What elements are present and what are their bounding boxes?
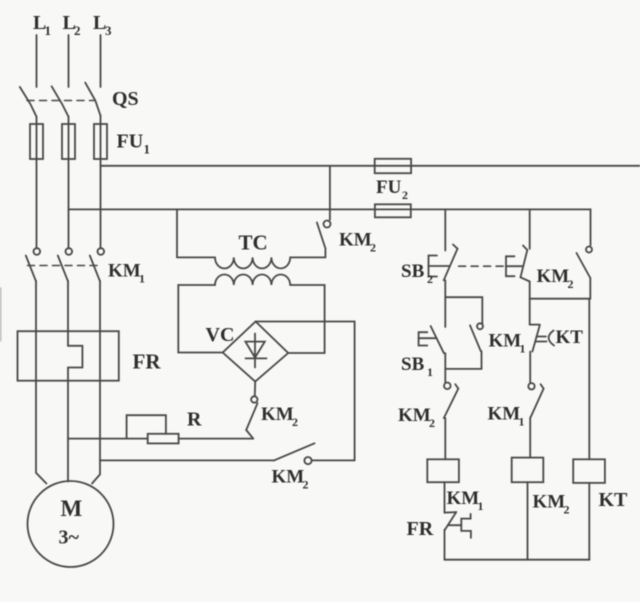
fuse FU2 label bbox=[376, 177, 408, 202]
wire pole1 through FR bbox=[35, 331, 37, 381]
wire rectifier dc+ riser bbox=[256, 322, 355, 461]
fuse FU1 pole3 body bbox=[94, 124, 107, 159]
svg-text:3~: 3~ bbox=[59, 527, 80, 549]
wire KT rung bbox=[588, 299, 590, 460]
pushbutton SB2 NC contact bbox=[444, 249, 458, 281]
switch QS pole 3 blade bbox=[85, 83, 100, 116]
svg-text:SB: SB bbox=[401, 261, 425, 282]
wire TC secondary right to rectifier bbox=[288, 285, 324, 353]
wire pole2 FU1 to KM1 bbox=[68, 159, 70, 248]
thermal relay FR box bbox=[18, 331, 119, 381]
contactor KM2 self-hold label bbox=[537, 266, 574, 291]
wire QS to FU1 pole3 bbox=[100, 116, 102, 124]
svg-text:1: 1 bbox=[144, 142, 151, 157]
thermal relay FR heater jog (middle phase) bbox=[68, 346, 82, 381]
node L1 label bbox=[33, 12, 51, 38]
svg-text:1: 1 bbox=[519, 415, 525, 429]
resistor R body bbox=[148, 434, 179, 444]
switch QS pole 2 blade bbox=[52, 86, 69, 116]
wire rung A from bus2 bbox=[444, 209, 446, 250]
svg-text:2: 2 bbox=[427, 272, 433, 286]
contactor KM2 TC-feed label bbox=[339, 230, 376, 255]
svg-text:FR: FR bbox=[133, 350, 162, 374]
rectifier VC bridge diamond bbox=[223, 322, 289, 382]
pushbutton SB2 label bbox=[401, 261, 433, 286]
contactor KM1 main pole3 contact bbox=[98, 248, 105, 255]
pushbutton SB1 label bbox=[401, 354, 433, 379]
svg-text:KM: KM bbox=[108, 261, 141, 282]
coil KM2 bbox=[512, 458, 544, 483]
svg-text:2: 2 bbox=[402, 188, 408, 202]
wire pole3 FR to motor bbox=[92, 381, 100, 484]
wire SB1 to KM2 NC bbox=[444, 353, 446, 382]
contactor KM2 brake horizontal label bbox=[272, 467, 309, 492]
svg-text:KM: KM bbox=[537, 266, 570, 287]
wire parallel branch bottom bbox=[445, 368, 481, 370]
svg-text:KT: KT bbox=[599, 489, 629, 511]
wire TC secondary left to rectifier bbox=[178, 285, 222, 353]
pushbutton SB1 NO contact bbox=[431, 326, 444, 353]
fuse FU2 top body bbox=[375, 159, 411, 173]
svg-text:VC: VC bbox=[206, 324, 235, 346]
wire L3 drop bbox=[100, 35, 102, 87]
coil KM1 bbox=[427, 459, 459, 482]
svg-text:QS: QS bbox=[112, 88, 139, 110]
svg-text:2: 2 bbox=[564, 503, 570, 517]
contactor KM1 main pole2 contact bbox=[66, 248, 73, 255]
pushbutton SB1 actuator bracket bbox=[419, 332, 428, 345]
svg-text:R: R bbox=[187, 409, 202, 431]
fuse FU1 pole2 body bbox=[62, 124, 75, 159]
svg-text:1: 1 bbox=[478, 499, 484, 513]
contactor KM2 brake contact (below rectifier) bbox=[254, 382, 256, 397]
wire pole2 KM1 to FR bbox=[67, 281, 69, 346]
transformer TC label bbox=[239, 231, 268, 255]
wire R to KM2 brake contact bbox=[179, 438, 254, 440]
wire L2 drop bbox=[68, 35, 70, 87]
resistor R label bbox=[187, 409, 202, 431]
switch QS pole 1 blade bbox=[20, 87, 37, 117]
wire pole3 KM1 to FR bbox=[99, 281, 101, 331]
rectifier VC label bbox=[206, 324, 235, 346]
svg-text:KM: KM bbox=[261, 404, 294, 425]
fuse FU1 pole1 body bbox=[30, 124, 43, 159]
svg-text:M: M bbox=[61, 496, 83, 521]
switch QS mechanical link (dashed) bbox=[27, 100, 95, 102]
wire TC primary right bbox=[290, 256, 325, 258]
node L3 label bbox=[93, 12, 112, 38]
svg-text:FR: FR bbox=[407, 518, 434, 540]
coil KM2 label bbox=[533, 492, 570, 517]
pushbutton SB2 actuator bracket bbox=[429, 256, 438, 277]
wire braking dc- from pole2 through R bbox=[68, 438, 148, 440]
coil KM1 label bbox=[447, 488, 484, 513]
svg-text:KT: KT bbox=[556, 327, 584, 348]
svg-text:2: 2 bbox=[74, 23, 81, 38]
contactor KM1 NC interlock label bbox=[488, 404, 525, 429]
svg-text:1: 1 bbox=[45, 23, 52, 38]
contactor KM1 aux label bbox=[489, 331, 526, 356]
svg-text:2: 2 bbox=[568, 277, 574, 291]
coil KT label bbox=[599, 489, 629, 511]
svg-text:1: 1 bbox=[427, 365, 433, 379]
wire pole1 KM1 to FR bbox=[35, 281, 37, 331]
contactor KM1 NO aux contact bbox=[477, 323, 483, 329]
thermal relay FR NC label bbox=[407, 518, 434, 540]
bus control bottom bbox=[445, 559, 590, 561]
transformer TC primary winding bbox=[215, 257, 290, 268]
wire pole2 FR to motor bbox=[67, 381, 69, 482]
wire KT coil to bus bbox=[588, 483, 590, 560]
contactor KM1 mechanical link (dashed) bbox=[28, 265, 99, 267]
scan artifact left edge bbox=[0, 288, 2, 341]
contactor KM2 NC interlock label bbox=[398, 405, 435, 430]
coil KT bbox=[573, 459, 605, 483]
svg-text:TC: TC bbox=[239, 231, 268, 255]
svg-text:SB: SB bbox=[401, 354, 425, 375]
wire rung A node bbox=[444, 280, 446, 327]
contactor KM2 contact feeding TC bbox=[329, 166, 331, 220]
wire pole1 FR to motor bbox=[36, 381, 46, 484]
wire R bypass loop bbox=[127, 415, 166, 438]
switch QS label bbox=[112, 88, 139, 110]
svg-text:KM: KM bbox=[398, 405, 431, 426]
svg-text:2: 2 bbox=[303, 478, 309, 492]
rectifier VC diode bbox=[254, 334, 256, 368]
svg-text:2: 2 bbox=[429, 416, 435, 430]
svg-text:FU: FU bbox=[376, 177, 402, 198]
wire rung join bbox=[530, 298, 591, 300]
contactor KM2 brake contact label bbox=[261, 404, 298, 429]
node L2 label bbox=[63, 12, 81, 38]
svg-text:KM: KM bbox=[272, 467, 305, 488]
transformer TC secondary winding bbox=[215, 275, 290, 286]
contactor KM2 NO self-hold contact bbox=[586, 247, 592, 253]
wire braking dc+ from pole3 bbox=[100, 459, 274, 461]
thermal relay FR label bbox=[133, 350, 162, 374]
wire L1 drop bbox=[36, 35, 38, 87]
wire parallel branch top bbox=[445, 297, 482, 323]
wire pole3 FU1 to KM1 bbox=[100, 159, 102, 248]
wire TC primary left from bus2 bbox=[177, 209, 215, 257]
wire KM2 coil to bus bbox=[527, 482, 529, 560]
contactor KM1 main pole1 contact bbox=[34, 248, 41, 255]
contactor KM2 brake contact (horizontal) bbox=[274, 443, 315, 460]
svg-text:2: 2 bbox=[370, 241, 376, 255]
svg-text:KM: KM bbox=[489, 331, 522, 352]
wire pole1 FU1 to KM1 bbox=[36, 159, 38, 248]
contactor KM1 main label bbox=[108, 261, 145, 286]
svg-text:1: 1 bbox=[520, 342, 526, 356]
wire QS to FU1 pole1 bbox=[36, 117, 38, 124]
fuse FU1 label bbox=[117, 131, 151, 157]
timer KT NC label bbox=[556, 327, 584, 348]
svg-text:3: 3 bbox=[105, 23, 112, 38]
bus L2 control line (second) bbox=[69, 209, 591, 245]
motor M label bbox=[59, 496, 83, 549]
fuse FU1 pole3 through-wire bbox=[100, 124, 102, 159]
motor M circle bbox=[28, 481, 114, 567]
svg-text:KM: KM bbox=[339, 230, 372, 251]
svg-text:KM: KM bbox=[533, 492, 566, 513]
thermal relay FR NC contact bbox=[444, 482, 446, 513]
contactor KM2 NC interlock contact bbox=[444, 383, 451, 390]
timer KT NC delayed contact bbox=[529, 299, 531, 325]
wire QS to FU1 pole2 bbox=[68, 117, 70, 124]
svg-text:KM: KM bbox=[447, 488, 480, 509]
pushbutton SB2 mechanical link (dashed) bbox=[459, 265, 504, 267]
fuse FU2 bottom body bbox=[375, 204, 411, 217]
pushbutton SB2 NO contact (linked) bbox=[529, 209, 531, 248]
svg-text:2: 2 bbox=[292, 415, 298, 429]
svg-text:KM: KM bbox=[488, 404, 521, 425]
bus L3 control line (top) bbox=[101, 165, 640, 167]
contactor KM1 NC interlock contact bbox=[528, 383, 534, 389]
wire pole3 through FR bbox=[99, 331, 101, 381]
svg-text:FU: FU bbox=[117, 131, 144, 153]
svg-text:1: 1 bbox=[139, 272, 145, 286]
fuse FU1 pole2 through-wire bbox=[68, 124, 70, 159]
fuse FU1 pole1 through-wire bbox=[36, 124, 38, 159]
